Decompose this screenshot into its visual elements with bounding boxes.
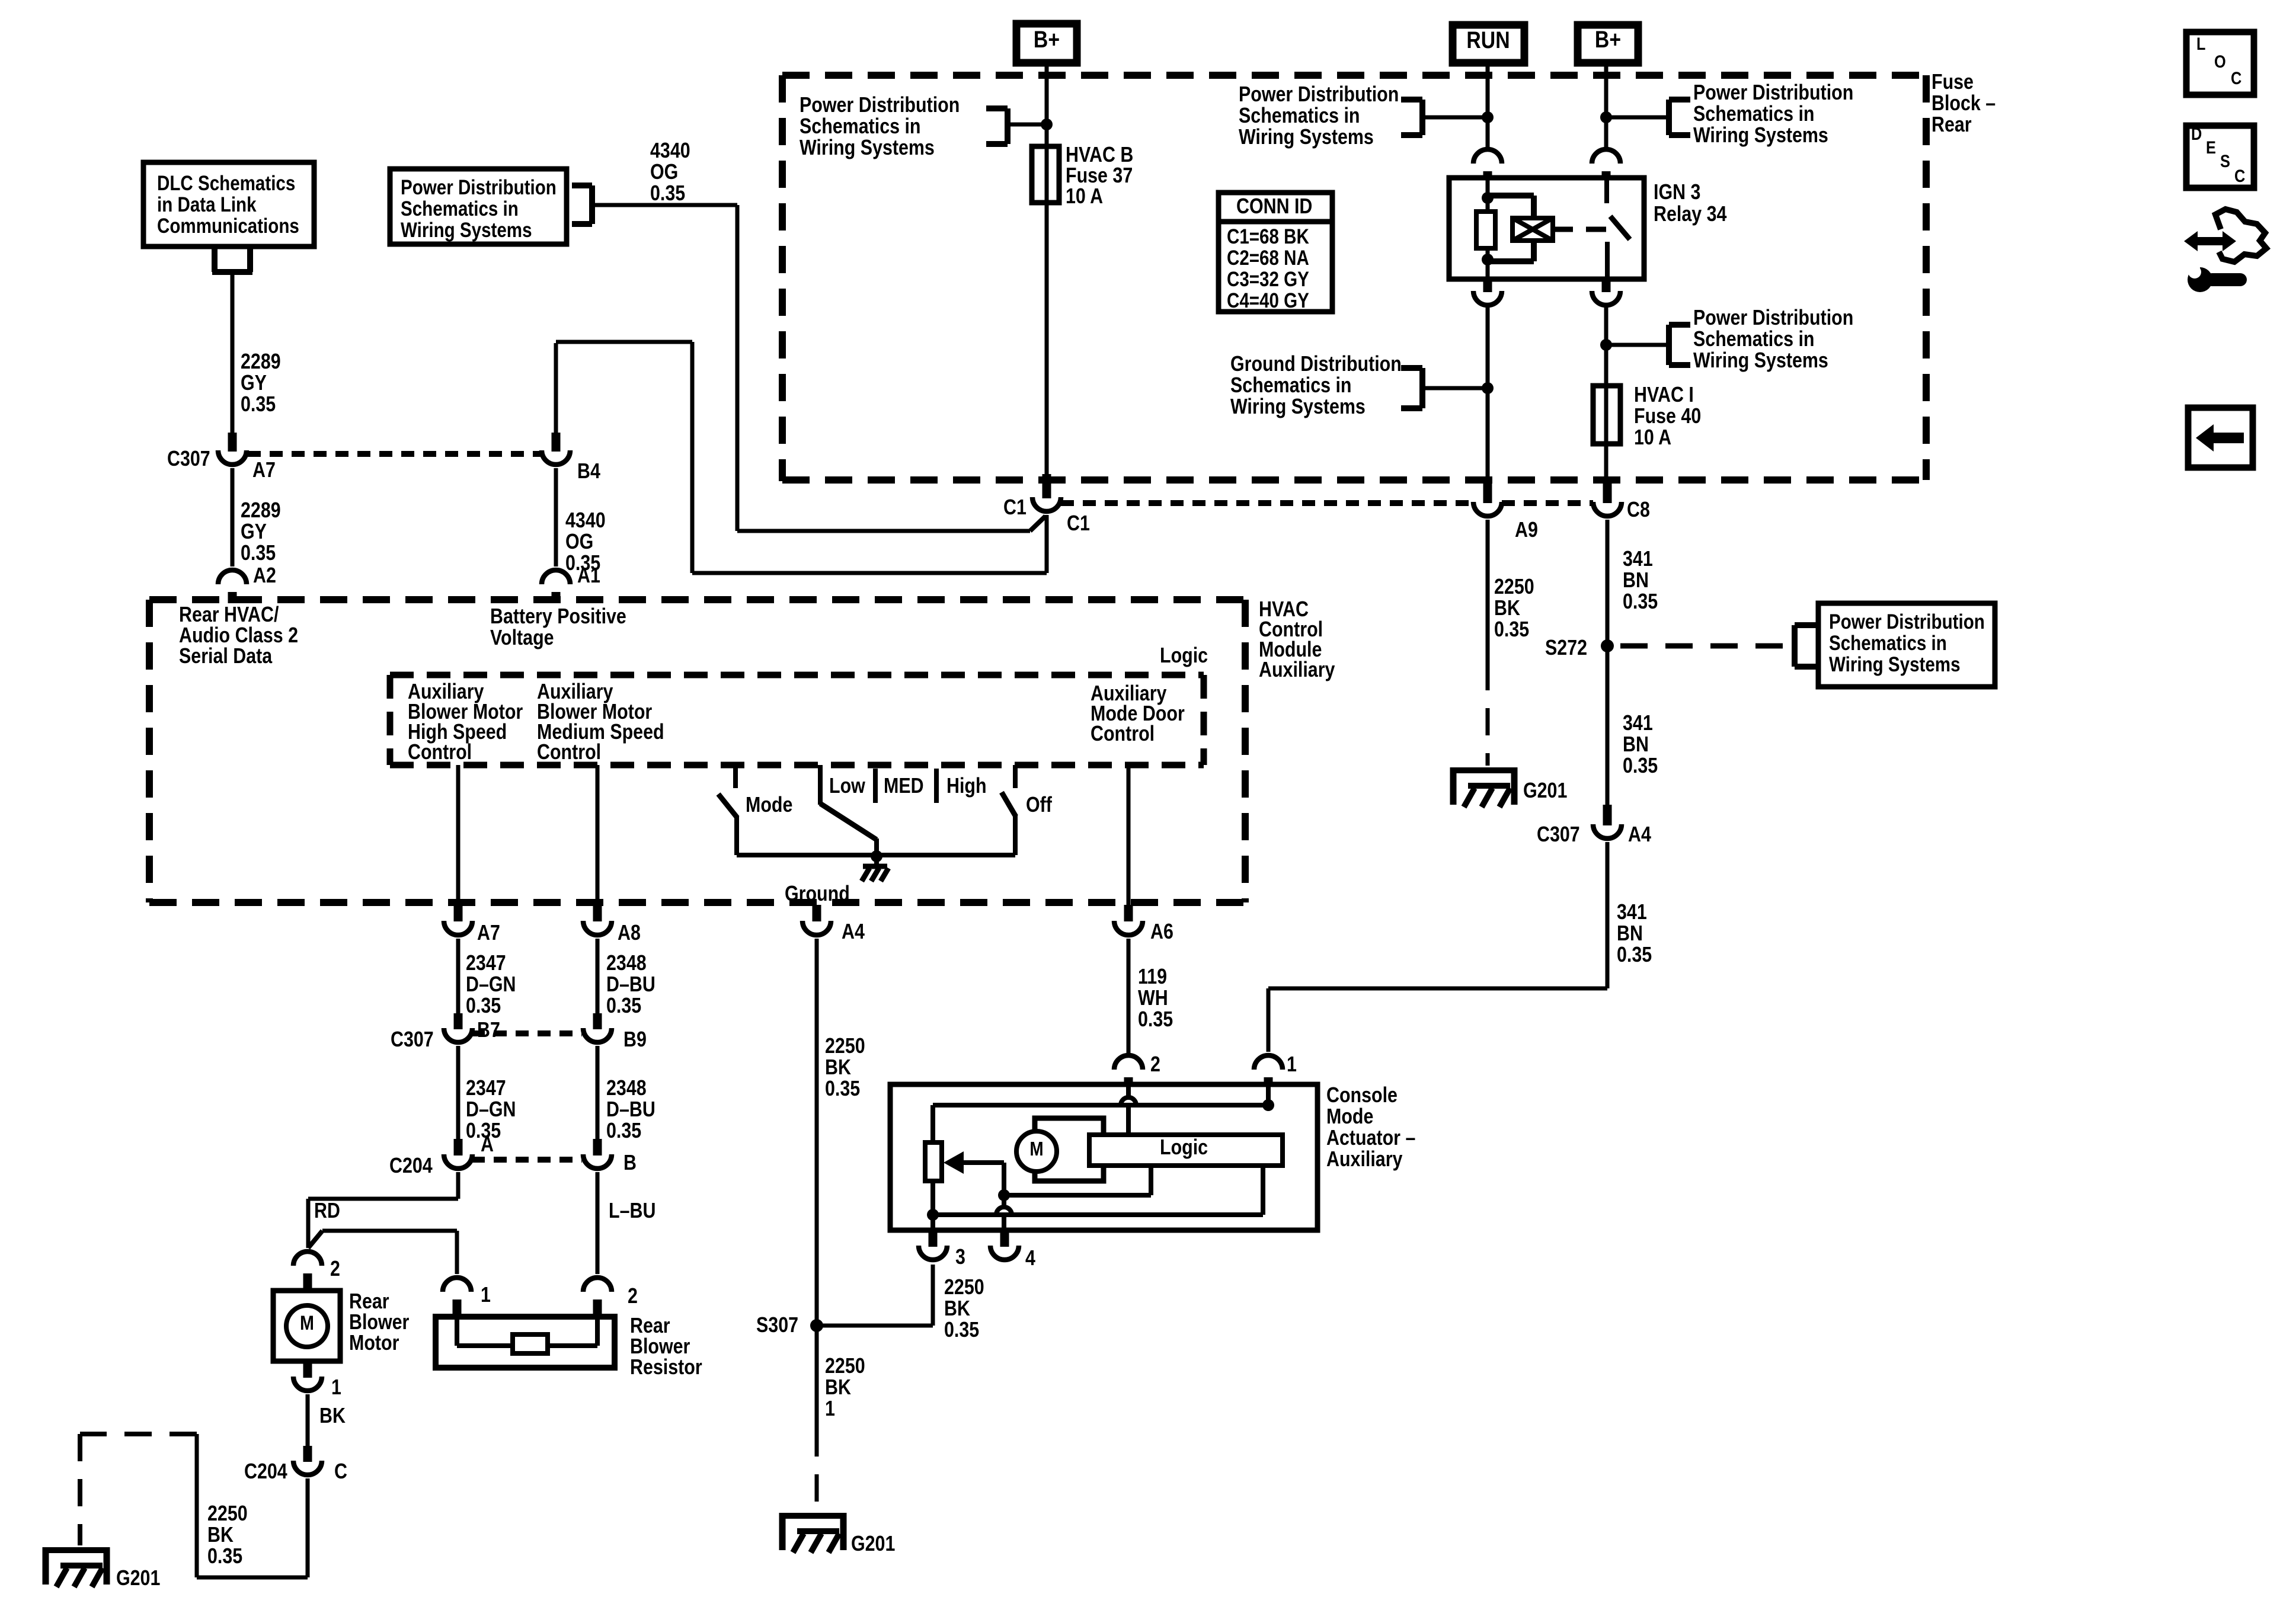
- junction dot B+ right: [1600, 111, 1612, 123]
- svg-text:2347: 2347: [466, 1077, 506, 1100]
- svg-text:Rear: Rear: [1932, 113, 1972, 137]
- svg-text:2: 2: [628, 1285, 638, 1308]
- svg-text:A4: A4: [1628, 823, 1651, 847]
- CONN ID table: [1219, 193, 1332, 312]
- svg-text:D–GN: D–GN: [466, 973, 516, 997]
- svg-text:2250: 2250: [944, 1276, 984, 1299]
- svg-text:C307: C307: [1537, 823, 1580, 847]
- svg-text:A1: A1: [577, 564, 600, 588]
- svg-text:G201: G201: [851, 1532, 895, 1556]
- svg-text:Wiring Systems: Wiring Systems: [1693, 349, 1828, 373]
- bracket power distribution (B+ right): [1606, 116, 1669, 120]
- connector C1 of fuse block: [1043, 474, 1051, 498]
- module pin A6: [1124, 905, 1133, 921]
- svg-text:S: S: [2220, 151, 2230, 171]
- svg-text:341: 341: [1623, 712, 1653, 735]
- svg-text:341: 341: [1617, 901, 1647, 924]
- svg-text:Serial Data: Serial Data: [179, 645, 273, 668]
- svg-text:10 A: 10 A: [1066, 185, 1103, 209]
- box DLC Schematics in Data Link Communications: [143, 162, 314, 247]
- exit bracket below DLC box: [212, 245, 218, 272]
- wire 2289 GY from DLC to C307: [231, 272, 235, 434]
- svg-text:C307: C307: [167, 447, 210, 471]
- svg-text:Motor: Motor: [349, 1331, 399, 1355]
- console pin2 internal wire to logic: [1126, 1087, 1131, 1098]
- svg-text:2250: 2250: [207, 1502, 248, 1526]
- svg-text:Low: Low: [829, 774, 865, 798]
- svg-text:Resistor: Resistor: [630, 1356, 702, 1379]
- ground G201 (S307): [779, 1513, 846, 1553]
- fuse block pin A9: [1483, 480, 1492, 503]
- svg-text:Schematics in: Schematics in: [800, 115, 920, 139]
- svg-text:BK: BK: [825, 1376, 851, 1400]
- switch common wire: [737, 853, 1015, 857]
- svg-text:Rear: Rear: [630, 1314, 670, 1338]
- console bottom line: [933, 1212, 1263, 1217]
- svg-text:Power Distribution: Power Distribution: [800, 94, 960, 117]
- svg-text:2289: 2289: [241, 350, 281, 374]
- svg-text:OG: OG: [565, 530, 593, 554]
- fuse block pin C8: [1603, 480, 1612, 503]
- wire relay to A9: [1486, 308, 1490, 480]
- console wiper arrow: [944, 1151, 964, 1174]
- svg-text:Power Distribution: Power Distribution: [1239, 83, 1399, 107]
- svg-text:GY: GY: [241, 372, 267, 395]
- svg-text:0.35: 0.35: [241, 542, 276, 565]
- svg-text:S272: S272: [1545, 636, 1587, 660]
- resistor pin 2: [583, 1278, 612, 1292]
- svg-text:2250: 2250: [825, 1035, 865, 1058]
- inner logic dashed box: [390, 672, 1204, 678]
- bracket power distribution (fuse40): [1606, 343, 1669, 347]
- fuse HVAC B Fuse 37 10A: [1032, 146, 1059, 203]
- icon hotlink arrow: [2184, 231, 2236, 251]
- connector face dotted line B7-B9: [472, 1030, 582, 1036]
- svg-text:A9: A9: [1515, 518, 1538, 542]
- svg-text:B9: B9: [623, 1028, 647, 1052]
- svg-text:0.35: 0.35: [1494, 618, 1529, 642]
- svg-text:C1: C1: [1067, 512, 1090, 536]
- svg-text:Fuse 40: Fuse 40: [1634, 405, 1701, 428]
- svg-text:C: C: [2231, 68, 2241, 88]
- svg-text:2348: 2348: [606, 1077, 647, 1100]
- svg-text:0.35: 0.35: [241, 393, 276, 417]
- relay coil resistor: [1486, 179, 1490, 212]
- internal chassis ground: [874, 856, 879, 866]
- junction dot B+ branch: [1600, 339, 1612, 351]
- wire relay switch to fuse 40: [1604, 308, 1609, 480]
- svg-text:L: L: [2196, 34, 2206, 53]
- bracket S272: [1795, 622, 1821, 628]
- console mode actuator box: [890, 1084, 1318, 1230]
- svg-text:A6: A6: [1150, 920, 1173, 944]
- console wiper to logic: [1004, 1193, 1151, 1198]
- relay switch: [1604, 179, 1609, 203]
- svg-text:in Data Link: in Data Link: [157, 193, 257, 216]
- svg-text:Blower: Blower: [349, 1311, 409, 1334]
- svg-text:C307: C307: [391, 1028, 434, 1052]
- svg-text:3: 3: [955, 1246, 965, 1269]
- svg-text:Ground Distribution: Ground Distribution: [1230, 353, 1402, 376]
- wire B4 branch: [556, 340, 692, 344]
- svg-text:Rear HVAC/: Rear HVAC/: [179, 603, 279, 627]
- dashed wire to ground G201: [80, 1432, 197, 1436]
- console pin4 wire: [1002, 1195, 1006, 1208]
- connector C204 pin A: [454, 1139, 463, 1156]
- mode switch: [733, 765, 738, 788]
- splice S272: [1601, 639, 1614, 652]
- svg-text:C4=40 GY: C4=40 GY: [1227, 289, 1309, 312]
- console pin2 wire hop over feed line: [1121, 1097, 1136, 1105]
- console motor circle: [1016, 1131, 1057, 1172]
- svg-text:Schematics in: Schematics in: [1693, 103, 1814, 126]
- wire 2289 GY C307 to module A2: [231, 468, 235, 566]
- svg-text:E: E: [2206, 137, 2216, 157]
- svg-text:MED: MED: [884, 774, 924, 798]
- console pin 1: [1254, 1055, 1283, 1070]
- junction dot ground distribution: [1482, 382, 1494, 394]
- svg-text:C3=32 GY: C3=32 GY: [1227, 268, 1309, 291]
- svg-text:Power Distribution: Power Distribution: [1693, 306, 1853, 330]
- blower switch blade: [820, 804, 877, 840]
- svg-text:B7: B7: [477, 1019, 500, 1042]
- wire inside module to A7: [456, 765, 461, 905]
- terminal B+ (right): [1578, 25, 1638, 63]
- svg-text:0.35: 0.35: [944, 1318, 979, 1342]
- svg-text:D–BU: D–BU: [606, 1098, 655, 1122]
- svg-text:C8: C8: [1627, 498, 1650, 522]
- svg-text:Block –: Block –: [1932, 92, 1996, 116]
- blower motor pin 2: [293, 1251, 322, 1266]
- svg-text:0.35: 0.35: [606, 1119, 641, 1143]
- svg-text:Power Distribution: Power Distribution: [1829, 610, 1985, 633]
- svg-text:B4: B4: [577, 460, 600, 484]
- console potentiometer: [930, 1105, 935, 1142]
- terminal B+ (left): [1016, 24, 1077, 63]
- bracket ground distribution: [1422, 386, 1488, 391]
- svg-text:BK: BK: [944, 1297, 970, 1321]
- svg-text:BK: BK: [825, 1056, 851, 1080]
- dashed wire to G201: [1486, 663, 1490, 766]
- console pin 4: [1000, 1232, 1009, 1247]
- svg-text:Relay 34: Relay 34: [1654, 203, 1727, 226]
- console pin4 wire hop over bottom line: [996, 1207, 1012, 1215]
- svg-text:Communications: Communications: [157, 215, 299, 238]
- connector C204 pin B: [593, 1139, 602, 1156]
- svg-text:1: 1: [825, 1397, 835, 1421]
- svg-text:2347: 2347: [466, 952, 506, 975]
- svg-text:Schematics in: Schematics in: [1829, 632, 1947, 655]
- console internal junction dot: [1262, 1099, 1274, 1111]
- svg-text:Control: Control: [1091, 722, 1155, 746]
- wire 341 BN to console: [1606, 842, 1610, 988]
- svg-text:CONN ID: CONN ID: [1236, 195, 1312, 219]
- wire 2348 D-BU B9 to C204 B: [596, 1046, 600, 1140]
- wire 2250 BK from A9: [1486, 520, 1490, 663]
- svg-text:C1=68 BK: C1=68 BK: [1227, 225, 1309, 248]
- svg-text:Wiring Systems: Wiring Systems: [1230, 395, 1366, 419]
- svg-text:Wiring Systems: Wiring Systems: [401, 219, 532, 242]
- svg-text:4340: 4340: [565, 509, 606, 533]
- svg-text:A4: A4: [842, 920, 865, 944]
- svg-text:2250: 2250: [1494, 575, 1534, 599]
- svg-text:Schematics in: Schematics in: [1693, 328, 1814, 351]
- svg-text:HVAC B: HVAC B: [1066, 143, 1133, 167]
- bracket wire power distribution (fuse block): [1008, 123, 1047, 127]
- svg-text:RUN: RUN: [1466, 26, 1510, 53]
- svg-text:Schematics in: Schematics in: [401, 197, 519, 220]
- svg-text:High: High: [946, 774, 987, 798]
- svg-text:2289: 2289: [241, 499, 281, 523]
- wire 2348 D-BU A8 to B9: [596, 939, 600, 1014]
- svg-text:2: 2: [330, 1257, 340, 1281]
- wire inside module to A8: [596, 765, 600, 905]
- module pin A8: [593, 905, 602, 921]
- svg-text:DLC Schematics: DLC Schematics: [157, 172, 295, 195]
- svg-text:Power Distribution: Power Distribution: [401, 176, 557, 199]
- console internal feed line: [933, 1103, 1268, 1108]
- svg-text:G201: G201: [116, 1567, 160, 1590]
- svg-text:Wiring Systems: Wiring Systems: [1693, 124, 1828, 148]
- svg-text:4: 4: [1025, 1247, 1035, 1270]
- svg-text:M: M: [1029, 1138, 1043, 1160]
- svg-text:Actuator –: Actuator –: [1326, 1126, 1415, 1150]
- svg-text:BN: BN: [1623, 569, 1649, 593]
- wire B+ to fuse 37: [1045, 66, 1049, 474]
- svg-text:0.35: 0.35: [207, 1545, 242, 1569]
- wire B+ to relay switch: [1604, 66, 1609, 147]
- svg-text:B+: B+: [1595, 25, 1621, 52]
- connector C204 pin C: [303, 1446, 312, 1462]
- svg-text:Mode: Mode: [746, 793, 792, 817]
- connector face dotted line C204: [472, 1157, 582, 1163]
- svg-text:A8: A8: [618, 921, 641, 945]
- svg-text:D: D: [2191, 124, 2202, 143]
- svg-text:IGN 3: IGN 3: [1654, 181, 1700, 204]
- junction dot fuse37 feed: [1041, 119, 1053, 130]
- connector C307 pin A4 (right): [1603, 805, 1612, 825]
- bracket power distribution (RUN): [1422, 116, 1488, 120]
- rear blower motor box: [273, 1291, 340, 1361]
- module pin A7: [454, 905, 463, 921]
- dashed wire S307 to ground: [815, 1429, 819, 1508]
- bracket from power distribution box: [572, 183, 592, 188]
- svg-text:Wiring Systems: Wiring Systems: [1239, 126, 1374, 149]
- svg-text:BK: BK: [1494, 597, 1520, 620]
- svg-text:1: 1: [1287, 1053, 1297, 1077]
- relay IGN 3 Relay 34 box: [1449, 178, 1644, 279]
- fuse HVAC I Fuse 40 10A: [1593, 386, 1620, 444]
- svg-text:RD: RD: [314, 1199, 340, 1223]
- svg-text:Audio Class 2: Audio Class 2: [179, 624, 298, 648]
- svg-text:0.35: 0.35: [825, 1077, 860, 1101]
- switch common junction dot: [871, 850, 882, 862]
- svg-text:Wiring Systems: Wiring Systems: [1829, 653, 1961, 676]
- svg-text:C1: C1: [1003, 496, 1027, 520]
- relay coil winding: [1488, 193, 1534, 199]
- wire RD to blower motor: [456, 1172, 461, 1199]
- svg-text:Ground: Ground: [785, 882, 850, 906]
- wire 2250 BK from A4: [815, 939, 819, 1429]
- svg-text:Wiring Systems: Wiring Systems: [800, 136, 935, 160]
- svg-text:2: 2: [1150, 1053, 1160, 1077]
- svg-text:0.35: 0.35: [1617, 943, 1652, 967]
- svg-text:Console: Console: [1326, 1084, 1398, 1108]
- svg-text:D–GN: D–GN: [466, 1098, 516, 1122]
- svg-text:D–BU: D–BU: [606, 973, 655, 997]
- svg-text:341: 341: [1623, 548, 1653, 571]
- svg-text:0.35: 0.35: [1138, 1008, 1173, 1032]
- svg-text:M: M: [300, 1312, 314, 1334]
- svg-text:WH: WH: [1138, 987, 1168, 1010]
- svg-text:0.35: 0.35: [466, 994, 501, 1018]
- svg-text:BN: BN: [1623, 733, 1649, 757]
- svg-text:2250: 2250: [825, 1355, 865, 1378]
- blower motor pin 1: [303, 1361, 312, 1378]
- resistor element: [455, 1319, 459, 1346]
- svg-text:Blower: Blower: [630, 1335, 690, 1359]
- svg-text:Off: Off: [1026, 793, 1053, 817]
- svg-text:Voltage: Voltage: [490, 626, 554, 650]
- wire RUN to relay: [1486, 66, 1490, 147]
- wire inside module to A6: [1127, 765, 1131, 905]
- icon DESC box: [2186, 126, 2254, 188]
- terminal RUN: [1453, 25, 1524, 63]
- connector face C1 dotted line: [1061, 500, 1473, 506]
- svg-text:Schematics in: Schematics in: [1230, 374, 1351, 398]
- svg-text:0.35: 0.35: [650, 182, 685, 206]
- relay pin connector (coil hot): [1473, 149, 1502, 164]
- svg-text:C: C: [2234, 166, 2245, 185]
- svg-text:Control: Control: [537, 741, 601, 764]
- svg-text:Rear: Rear: [349, 1290, 389, 1314]
- svg-text:HVAC I: HVAC I: [1634, 383, 1694, 407]
- svg-text:10 A: 10 A: [1634, 426, 1671, 450]
- svg-text:GY: GY: [241, 520, 267, 544]
- connector C307 pin B7: [454, 1013, 463, 1029]
- relay bottom pin (switch out): [1602, 279, 1611, 292]
- console pot bottom junction dot: [927, 1209, 939, 1221]
- svg-text:C204: C204: [389, 1154, 433, 1178]
- wire 341 BN horizontal run: [1268, 987, 1607, 991]
- wire 341 BN from C8: [1606, 520, 1610, 805]
- svg-text:Mode: Mode: [1326, 1105, 1373, 1129]
- console wiper junction dot: [998, 1189, 1010, 1201]
- box Power Distribution Schematics in Wiring Systems (top left): [390, 169, 567, 244]
- svg-text:0.35: 0.35: [1623, 754, 1658, 778]
- svg-text:A2: A2: [253, 564, 276, 588]
- svg-text:L–BU: L–BU: [609, 1199, 655, 1223]
- console pin1 internal wire: [1266, 1087, 1271, 1105]
- wire 4340 OG from power distribution: [592, 203, 737, 207]
- svg-text:Battery Positive: Battery Positive: [490, 605, 626, 629]
- ground G201 (A9): [1450, 767, 1517, 807]
- svg-text:1: 1: [481, 1283, 491, 1307]
- svg-text:Auxiliary: Auxiliary: [1326, 1148, 1403, 1172]
- console logic box: [1089, 1135, 1283, 1166]
- svg-text:B: B: [623, 1151, 637, 1175]
- svg-text:BK: BK: [319, 1404, 346, 1428]
- svg-text:BN: BN: [1617, 922, 1643, 946]
- fuse block - rear dashed outline: [782, 72, 1926, 79]
- svg-text:B+: B+: [1034, 25, 1060, 52]
- svg-text:Fuse 37: Fuse 37: [1066, 164, 1133, 188]
- console pin 2: [1114, 1055, 1143, 1070]
- svg-text:BK: BK: [207, 1523, 234, 1547]
- svg-text:Auxiliary: Auxiliary: [1259, 658, 1335, 682]
- svg-text:Control: Control: [408, 741, 472, 764]
- svg-text:2348: 2348: [606, 952, 647, 975]
- connector C307 pin B9: [593, 1013, 602, 1029]
- svg-text:1: 1: [331, 1376, 341, 1400]
- splice S307: [810, 1319, 823, 1332]
- wire 4340 OG B4 to A1: [554, 468, 558, 566]
- relay actuating dashed link: [1553, 227, 1607, 232]
- wire above B4: [554, 343, 558, 434]
- box Power Distribution Schematics in Wiring Systems (S272): [1818, 603, 1995, 687]
- wire L-BU to resistor pin 2: [596, 1172, 600, 1274]
- svg-text:119: 119: [1138, 965, 1167, 989]
- off switch: [1013, 765, 1018, 788]
- wire 4340 OG down and to C1: [736, 205, 740, 531]
- module pin A2: [218, 570, 247, 584]
- wire 2347 D-GN B7 to C204 A: [456, 1046, 461, 1140]
- blower speed switch contacts Low MED High: [818, 765, 823, 805]
- icon hotlink outline: [2215, 209, 2266, 262]
- svg-text:Logic: Logic: [1160, 644, 1208, 668]
- svg-text:A7: A7: [252, 459, 276, 482]
- wire 2347 D-GN A7 to B7: [456, 939, 461, 1014]
- svg-text:0.35: 0.35: [1623, 590, 1658, 614]
- svg-text:O: O: [2214, 52, 2226, 71]
- connector C307 pin A7 (left): [228, 433, 237, 452]
- svg-text:Power Distribution: Power Distribution: [1693, 81, 1853, 105]
- relay pin connector (switch hot): [1592, 149, 1620, 164]
- svg-text:C: C: [334, 1460, 347, 1484]
- svg-text:Schematics in: Schematics in: [1239, 104, 1360, 128]
- icon back arrow box: [2188, 408, 2253, 468]
- icon LOC box: [2186, 32, 2254, 95]
- svg-text:Fuse: Fuse: [1932, 71, 1974, 94]
- svg-text:G201: G201: [1523, 779, 1567, 803]
- wire S307 to console pin 3: [817, 1324, 933, 1328]
- module pin A4 (ground): [813, 905, 821, 921]
- connector face C307 dotted line: [248, 451, 541, 457]
- svg-text:4340: 4340: [650, 139, 690, 163]
- ground G201 (bottom left): [43, 1547, 110, 1587]
- svg-text:A: A: [481, 1133, 494, 1157]
- svg-text:0.35: 0.35: [606, 994, 641, 1018]
- resistor pin 1: [443, 1278, 471, 1292]
- svg-text:S307: S307: [756, 1314, 798, 1337]
- connector C307 pin B4: [552, 433, 561, 452]
- console pin 3: [929, 1232, 938, 1247]
- relay bottom pin (coil gnd): [1483, 279, 1492, 292]
- rear blower resistor box: [436, 1317, 615, 1368]
- svg-text:A7: A7: [477, 921, 500, 945]
- icon wrench: [2188, 267, 2212, 292]
- svg-text:OG: OG: [650, 161, 678, 184]
- junction dot RUN: [1482, 111, 1494, 123]
- svg-text:C2=68 NA: C2=68 NA: [1227, 247, 1309, 270]
- wire BK motor to C204 C: [306, 1394, 310, 1447]
- branch to resistor pin 1: [308, 1231, 322, 1248]
- svg-text:Logic: Logic: [1160, 1136, 1208, 1160]
- dashed link S272 to power distribution: [1620, 644, 1791, 649]
- HVAC control module auxiliary dashed outline: [149, 596, 1245, 603]
- wire 119 WH A6 to console pin 2: [1127, 939, 1131, 1053]
- console motor box: [1035, 1118, 1104, 1181]
